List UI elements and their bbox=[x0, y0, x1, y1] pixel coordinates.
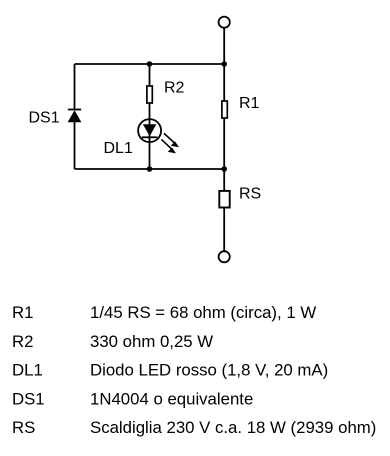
svg-text:Diodo LED rosso (1,8 V, 20 mA): Diodo LED rosso (1,8 V, 20 mA) bbox=[90, 361, 328, 380]
parts list row R2 bbox=[12, 332, 213, 351]
svg-text:RS: RS bbox=[12, 418, 35, 437]
diode DS1 bbox=[68, 110, 82, 123]
svg-text:DL1: DL1 bbox=[12, 361, 43, 380]
wire RS upper lead bbox=[223, 169, 225, 191]
resistor R2 bbox=[147, 86, 152, 103]
svg-text:1/45 RS = 68 ohm (circa), 1 W: 1/45 RS = 68 ohm (circa), 1 W bbox=[90, 303, 316, 322]
terminal top bbox=[219, 17, 230, 28]
wire RS lower lead bbox=[223, 208, 225, 252]
svg-text:DS1: DS1 bbox=[12, 389, 45, 408]
node junction top middle bbox=[147, 61, 153, 67]
svg-text:Scaldiglia 230 V c.a. 18 W (29: Scaldiglia 230 V c.a. 18 W (2939 ohm) bbox=[90, 418, 376, 437]
wire top rail bbox=[75, 63, 225, 65]
wire left branch upper bbox=[74, 64, 76, 110]
node junction bottom middle bbox=[147, 166, 153, 172]
svg-text:R2: R2 bbox=[12, 332, 33, 351]
svg-text:R2: R2 bbox=[164, 80, 185, 97]
resistor RS bbox=[219, 191, 229, 208]
wire top feed bbox=[223, 28, 225, 64]
wire middle branch mid bbox=[149, 104, 151, 170]
parts list row DS1 bbox=[12, 389, 253, 408]
wire bottom rail bbox=[75, 168, 225, 170]
wire middle branch upper bbox=[149, 64, 151, 86]
svg-text:1N4004 o equivalente: 1N4004 o equivalente bbox=[90, 389, 253, 408]
svg-text:DS1: DS1 bbox=[29, 110, 60, 127]
svg-text:330 ohm 0,25 W: 330 ohm 0,25 W bbox=[90, 332, 213, 351]
svg-text:R1: R1 bbox=[239, 95, 260, 112]
node junction bottom right bbox=[221, 166, 227, 172]
parts list row DL1 bbox=[12, 361, 328, 380]
svg-text:DL1: DL1 bbox=[104, 140, 133, 157]
svg-text:RS: RS bbox=[239, 185, 261, 202]
parts list row RS bbox=[12, 418, 376, 437]
LED DL1 bbox=[138, 119, 179, 153]
parts list row R1 bbox=[12, 303, 316, 322]
svg-text:R1: R1 bbox=[12, 303, 33, 322]
node junction top right bbox=[221, 61, 227, 67]
resistor R1 bbox=[222, 101, 227, 118]
wire right branch lower bbox=[223, 119, 225, 170]
wire left branch lower bbox=[74, 122, 76, 169]
terminal bottom bbox=[219, 251, 230, 262]
wire right branch upper bbox=[223, 64, 225, 101]
